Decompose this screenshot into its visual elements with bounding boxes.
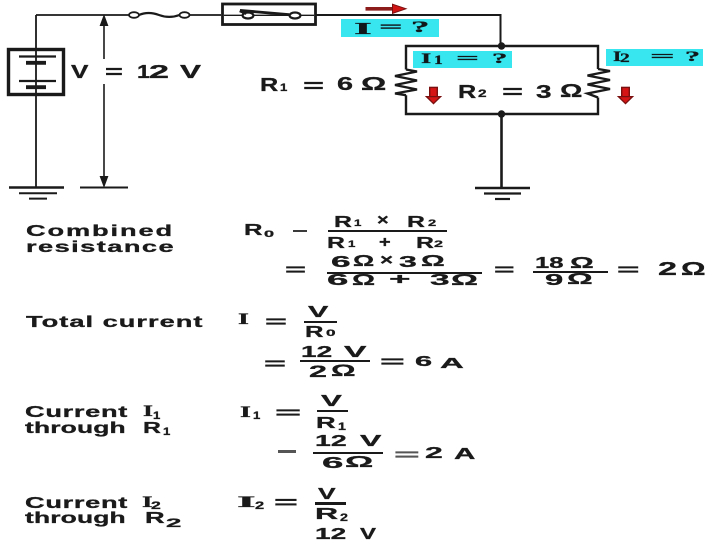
value label R1 = 6 ohm [260, 76, 278, 94]
current arrow I (red, rightward) [366, 4, 407, 13]
node junction bottom [498, 110, 505, 117]
cyan label texts [354, 20, 372, 37]
equation I1 = V/R1 [240, 405, 251, 421]
value label R2 = 3 ohm [458, 83, 476, 101]
wire fuse to switch [190, 14, 222, 16]
battery internal wire [35, 49, 37, 95]
switch S1 enclosure [223, 4, 316, 25]
fuse F1 [129, 12, 190, 18]
battery cell 1 short plate [26, 61, 46, 65]
battery B1 enclosure [9, 50, 64, 95]
fraction bar R1xR2 over R1+R2 [328, 230, 447, 232]
battery cell 1 long plate [19, 55, 56, 57]
text Current I1 through R1 [25, 405, 128, 421]
fraction bar V over R0 [304, 321, 337, 323]
node junction top [498, 42, 505, 49]
equation 12 V (cut off) [315, 527, 346, 543]
wire loop to ground [500, 114, 503, 187]
switch terminal right [290, 13, 301, 19]
wire switch to node, down to loop [316, 14, 501, 46]
switch terminal left [243, 13, 254, 19]
equation R0 = R1xR2/(R1+R2) [244, 223, 263, 239]
resistor R2 [588, 69, 611, 98]
dash (scan-faded equals) after R0 [293, 230, 307, 233]
battery cell 2 short plate [26, 85, 46, 89]
current arrow I2 (red, down) [618, 87, 632, 103]
switch lever handle tip [240, 11, 247, 14]
text Total current [26, 315, 203, 331]
grey dash (scan-faded equals) before 12V/6ohm [278, 450, 296, 453]
equation 12V/6ohm = 2 A [315, 434, 347, 450]
value label V = 12 V [71, 63, 88, 81]
text Current I2 through R2 [25, 496, 128, 512]
parallel loop upper wires [406, 46, 598, 70]
fraction bar 12V over 6ohm [313, 452, 383, 454]
battery cell 2 long plate [19, 80, 56, 82]
wire through switch [224, 14, 314, 16]
ground under battery [9, 188, 64, 199]
node label I = ? [341, 19, 440, 37]
wire battery top to fuse [36, 14, 129, 16]
resistor R1 [395, 70, 417, 96]
voltage dimension line with arrowheads [80, 16, 128, 188]
equation = 12V/2ohm = 6 A [264, 357, 286, 373]
fraction bar 18ohm over 9ohm [533, 271, 608, 273]
text Combined resistance [26, 224, 174, 240]
equation = 6ohm x 3ohm / 6ohm + 3ohm = 18ohm/9ohm = 2ohm [285, 263, 306, 279]
current arrow I1 (red, down) [426, 87, 440, 103]
wire battery top lead [35, 15, 37, 50]
equation I2 = V/R2 [237, 495, 256, 511]
ground under loop [475, 188, 530, 199]
fraction bar V over R1 [317, 410, 348, 412]
fraction bar V over R2 [315, 502, 346, 505]
wire battery to ground [35, 94, 37, 187]
node label I2 = ? [606, 49, 703, 67]
fraction bar 6ohm x 3ohm over 6ohm + 3ohm [327, 272, 481, 274]
node label I1 = ? [413, 51, 512, 68]
switch lever blade [240, 10, 289, 14]
equation I = V/R0 [238, 312, 249, 328]
fraction bar 12V over 2ohm [300, 360, 371, 362]
parallel loop lower wires [406, 95, 598, 114]
